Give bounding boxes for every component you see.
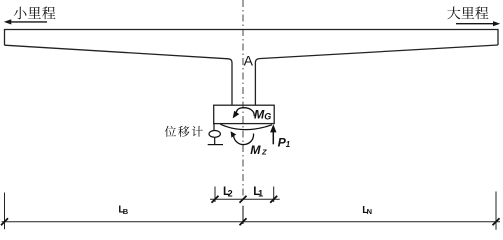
svg-text:N: N xyxy=(367,207,372,216)
svg-text:2: 2 xyxy=(228,188,233,198)
svg-text:B: B xyxy=(123,207,129,216)
svg-text:1: 1 xyxy=(258,188,263,198)
svg-text:A: A xyxy=(244,53,254,69)
